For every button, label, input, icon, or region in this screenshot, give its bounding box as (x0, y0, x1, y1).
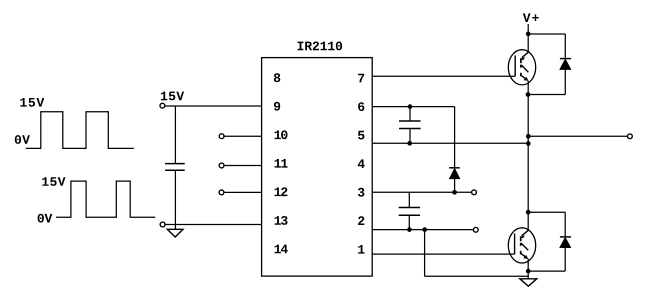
capacitor C2 bootstrap (399, 120, 421, 122)
wire Q2 source to ground (527, 259, 529, 279)
wire D2 vertical lower (564, 69, 566, 94)
terminal 15V supply (160, 103, 165, 108)
transistor Q2 source diagonal (521, 254, 527, 259)
capacitor C2 bootstrap stub lower (409, 129, 411, 144)
pin 11 label (275, 159, 288, 168)
terminal pin 2 (473, 227, 478, 232)
transistor Q1 gate bar (514, 55, 516, 76)
wire 15V rail lower (174, 170, 176, 229)
input waveform HIN (26, 112, 134, 149)
wire V+ stub (527, 24, 529, 52)
wire D3 vertical upper (564, 212, 566, 237)
wire D3 bottom to Q2 source (528, 270, 565, 272)
wire 15V to pin 9 (165, 105, 262, 107)
node Q1 source / D2 (526, 92, 531, 97)
wire return horizontal (425, 275, 529, 277)
node D1/pin3 junction (452, 190, 457, 195)
wire pin 1 to Q2 gate (372, 253, 514, 255)
wire pin 10 (224, 135, 262, 137)
wire Q2 drain to D3 top (528, 211, 565, 213)
transistor Q2 body diagonal (521, 243, 528, 250)
transistor Q2 body (508, 228, 535, 263)
node C3/pin2 junction (407, 227, 412, 232)
pin 6 label (358, 102, 364, 111)
transistor Q2 gate bar (514, 233, 516, 254)
terminal COM 0V (160, 222, 165, 227)
pin 8 label (274, 73, 280, 82)
wire pin 11 (224, 165, 262, 167)
label 15V supply (161, 92, 184, 101)
op-amp U1 IR2110 body (262, 58, 373, 277)
transistor Q1 drain diagonal (522, 52, 528, 57)
label IR2110 (298, 42, 343, 51)
label V+ (523, 13, 539, 22)
diode D1 bootstrap (449, 167, 460, 169)
pin 14 label (275, 245, 288, 254)
pin 13 label (275, 216, 288, 225)
terminal pin 3 (472, 190, 477, 195)
pin 3 label (358, 188, 365, 197)
ground right (520, 279, 537, 286)
transistor Q2 drain diagonal (522, 230, 529, 235)
transistor Q1 channel bar (520, 58, 522, 63)
wire pin 7 to Q1 gate (372, 75, 515, 77)
pin 5 label (358, 131, 364, 140)
node pin2/return junction (422, 227, 427, 232)
pin 9 label (274, 102, 280, 111)
label 0V (HIN low) (15, 135, 30, 144)
transistor Q1 source diagonal (521, 75, 527, 80)
wire pin 2 (372, 229, 473, 231)
terminal pin 11 (219, 163, 224, 168)
capacitor C1 Vcc bypass (165, 163, 185, 165)
wire output (528, 135, 627, 137)
wire return vertical (424, 230, 426, 277)
wire bootstrap vertical lower (454, 179, 456, 193)
input waveform LIN (56, 181, 155, 217)
capacitor C3 stub lower (408, 215, 410, 229)
wire Q1 source rail (527, 81, 529, 231)
wire D2 vertical upper (564, 34, 566, 59)
node pin6/C2 junction (408, 104, 413, 109)
node Q2 drain / D3 (526, 210, 531, 215)
diode D2 (560, 58, 571, 60)
capacitor C3 stub upper (408, 192, 410, 207)
label 15V (LIN high) (42, 177, 65, 186)
wire pin 12 (224, 191, 262, 193)
capacitor C3 (399, 207, 420, 209)
label 0V (LIN low) (38, 214, 53, 223)
capacitor C2 bootstrap stub upper (409, 107, 411, 121)
node output junction (526, 134, 531, 139)
pin 1 label (358, 245, 364, 254)
wire bootstrap vertical upper (454, 107, 456, 168)
wire D3 vertical lower (564, 248, 566, 272)
pin 12 label (275, 187, 288, 196)
wire pin 5 (372, 142, 528, 144)
transistor Q2 channel bar (520, 236, 522, 241)
pin 2 label (358, 216, 364, 225)
wire pin 3 (372, 191, 471, 193)
node pin5/output rail junction (526, 141, 531, 146)
node Q2 source / ground (526, 269, 531, 274)
transistor Q1 body (508, 50, 535, 85)
wire 15V rail upper (174, 106, 176, 164)
wire COM to pin 13 (165, 224, 262, 226)
pin 4 label (358, 159, 365, 168)
terminal output (628, 134, 633, 139)
pin 7 label (358, 74, 364, 83)
transistor Q1 body diagonal (521, 65, 528, 72)
wire D2 bottom to Q1 source (528, 94, 565, 96)
diode D3 (560, 236, 571, 238)
ground left (167, 229, 183, 237)
label 15V (HIN high) (20, 98, 44, 107)
wire V+ to D2 top (528, 33, 565, 35)
pin 10 label (275, 130, 288, 139)
terminal pin 10 (219, 134, 224, 139)
node C2/pin5 junction (407, 141, 412, 146)
terminal pin 12 (219, 190, 224, 195)
wire pin 6 (372, 106, 454, 108)
node V+ junction (526, 32, 531, 37)
